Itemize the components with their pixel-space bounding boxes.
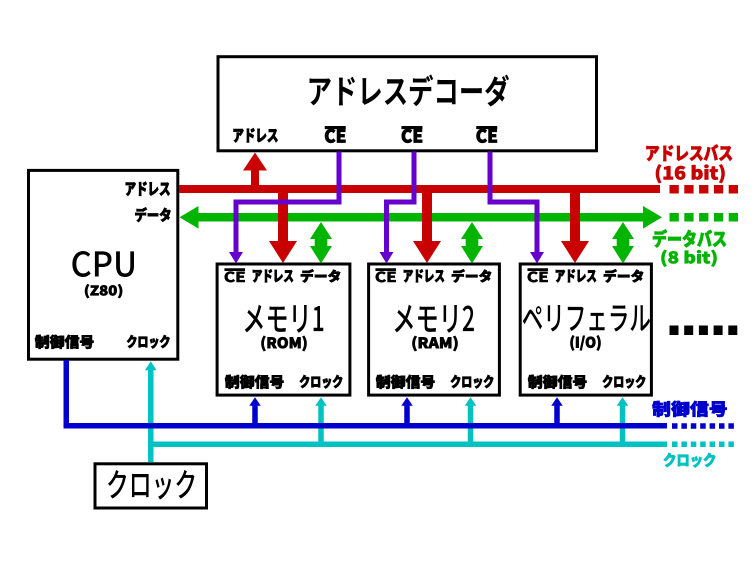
memory1 pin control bbox=[225, 375, 284, 389]
CE3 arrowhead bbox=[530, 252, 544, 264]
address arrow down into memory1 bbox=[269, 188, 297, 263]
control arrowhead into peripheral bbox=[551, 397, 563, 406]
peripheral pin address bbox=[556, 269, 596, 282]
peripheral pin CE bbox=[528, 269, 548, 283]
label: CPU title bbox=[72, 251, 134, 277]
data bus horizontal line (green) bbox=[196, 213, 644, 222]
memory1 (ROM) box bbox=[217, 264, 350, 395]
memory2 (RAM) box bbox=[369, 264, 500, 395]
label: (I/O) bbox=[571, 336, 601, 351]
address arrow down into peripheral bbox=[561, 188, 589, 263]
label: (ROM) bbox=[262, 336, 307, 351]
memory1 pin CE bbox=[225, 269, 245, 283]
CE1 arrowhead bbox=[229, 252, 243, 264]
label: clock box title bbox=[108, 470, 195, 500]
CE1 wire decoder to memory1 bbox=[236, 152, 339, 255]
CPU pin label control bbox=[35, 335, 94, 349]
label: address decoder title bbox=[310, 75, 510, 107]
clock distribution horizontal wire bbox=[148, 442, 667, 448]
CE2 arrowhead bbox=[380, 252, 394, 264]
address arrow down into memory2 bbox=[413, 188, 441, 263]
memory2 pin clock bbox=[451, 375, 494, 389]
address decoder box bbox=[218, 57, 597, 151]
CE2 wire decoder to memory2 bbox=[387, 152, 415, 255]
clock wire from clock box up to CPU bbox=[148, 368, 154, 462]
CPU box bbox=[29, 170, 178, 359]
control arrowhead into memory2 bbox=[401, 397, 413, 406]
clock dashed continuation (cyan) bbox=[672, 442, 734, 448]
data bus arrowhead into CPU bbox=[180, 206, 199, 229]
CPU pin label clock bbox=[127, 335, 170, 349]
clock riser to memory1 bbox=[318, 404, 324, 447]
label: (Z80) bbox=[85, 284, 122, 298]
label: 8 bit (green) bbox=[662, 250, 717, 267]
label: peripheral title bbox=[523, 305, 650, 332]
CPU pin label address bbox=[126, 182, 170, 196]
decoder pin label address bbox=[234, 128, 278, 142]
memory2 pin control bbox=[376, 375, 435, 389]
memory2 pin address bbox=[404, 269, 444, 282]
control riser to memory1 bbox=[252, 404, 258, 426]
clock arrowhead into memory1 bbox=[315, 397, 327, 406]
control wire from CPU down and right bbox=[66, 360, 667, 426]
peripheral pin data bbox=[604, 269, 643, 282]
label: address bus (red) bbox=[647, 145, 733, 162]
clock arrowhead into CPU bbox=[145, 361, 157, 370]
label: data bus (green) bbox=[653, 230, 726, 248]
data double-arrow to peripheral bbox=[612, 222, 634, 264]
decoder pin label CE1 bbox=[325, 126, 345, 143]
data double-arrow to memory1 bbox=[310, 222, 332, 264]
memory1 pin clock bbox=[300, 375, 343, 389]
bus dashed continuation (black) bbox=[670, 326, 738, 336]
clock riser to peripheral bbox=[620, 404, 626, 447]
data bus arrowhead right end bbox=[643, 206, 662, 229]
peripheral pin control bbox=[528, 375, 587, 389]
memory1 pin data bbox=[301, 269, 340, 282]
address bus dashed continuation (red) bbox=[670, 185, 739, 194]
peripheral (I/O) box bbox=[520, 264, 651, 395]
address bus horizontal line (red) bbox=[179, 185, 660, 193]
clock arrowhead into peripheral bbox=[617, 397, 629, 406]
label: memory1 title bbox=[245, 305, 323, 333]
control riser to peripheral bbox=[554, 404, 560, 426]
decoder pin label CE3 bbox=[477, 126, 497, 143]
label: 16 bit (red) bbox=[656, 165, 725, 184]
CPU pin label data bbox=[135, 207, 170, 222]
clock generator box bbox=[95, 464, 207, 508]
clock riser to memory2 bbox=[468, 404, 474, 447]
data bus dashed continuation (green) bbox=[670, 213, 739, 222]
memory2 pin CE bbox=[376, 269, 396, 283]
data double-arrow to memory2 bbox=[461, 222, 483, 264]
label: memory2 title bbox=[395, 305, 474, 333]
memory2 pin data bbox=[452, 269, 491, 282]
memory1 pin address bbox=[253, 269, 293, 282]
clock arrowhead into memory2 bbox=[465, 397, 477, 406]
label: clock (cyan) bbox=[664, 453, 715, 468]
CE3 wire decoder to peripheral bbox=[490, 152, 537, 255]
control arrowhead into memory1 bbox=[249, 397, 261, 406]
control dashed continuation (blue) bbox=[672, 423, 734, 429]
decoder pin label CE2 bbox=[402, 126, 422, 143]
label: control signal (blue) bbox=[652, 401, 726, 417]
address arrow up into decoder bbox=[243, 153, 267, 189]
peripheral pin clock bbox=[603, 375, 646, 389]
control riser to memory2 bbox=[404, 404, 410, 426]
label: (RAM) bbox=[413, 336, 458, 351]
